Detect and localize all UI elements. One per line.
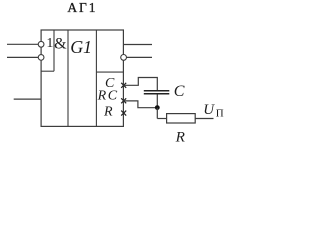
svg-text:П: П [216,108,224,120]
divider: bottom edge of input cell 1 [41,70,54,72]
IC U1 main outline (АГ1 one-shot box) [41,30,123,126]
wire resistor R right lead to supply [195,118,213,120]
wire capacitor bottom lead [156,94,158,107]
junction node dot [155,105,160,110]
wire from RC pin to junction (right, down, right) [123,101,157,108]
svg-text:RC: RC [97,89,119,104]
inversion circle output 2 [121,55,127,61]
svg-text:R: R [103,105,113,120]
capacitor C top plate [144,90,170,92]
wire input 2 [7,56,38,58]
inversion circle input 1 [38,41,44,47]
divider between G1 column and RC pin column [95,30,97,126]
non-logic pin mark x on R pin [121,111,126,116]
svg-text:1: 1 [46,36,53,51]
divider between & column and G1 column [67,30,69,126]
capacitor C bottom plate [144,93,170,95]
wire output 1 [123,44,152,46]
wire input 3 [14,98,41,100]
wire output 2 [127,56,153,58]
svg-text:АГ1: АГ1 [67,0,97,15]
non-logic pin mark x on RC pin [121,98,126,103]
wire to resistor R left lead [157,118,166,120]
wire from C pin to capacitor top (right, up, right, down) [123,78,157,91]
divider: top edge of C/RC/R pin cell [96,71,123,73]
svg-text:R: R [175,129,186,146]
svg-text:U: U [203,102,215,118]
divider: right edge of input cell 1 [53,30,55,71]
wire input 1 [7,43,38,45]
inversion circle input 2 [38,55,44,61]
svg-text:G1: G1 [70,37,92,57]
svg-text:&: & [54,36,67,53]
svg-text:C: C [174,83,185,100]
non-logic pin mark x on C pin [121,83,126,88]
resistor R body [167,114,196,123]
wire junction down to resistor level [156,108,158,119]
